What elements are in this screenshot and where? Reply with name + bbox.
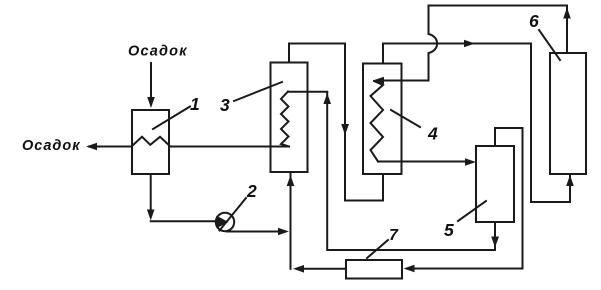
arrowhead: left into cooler 7 [404, 265, 415, 273]
svg-text:2: 2 [246, 181, 257, 201]
svg-text:4: 4 [427, 124, 438, 144]
pump P2 circle [216, 213, 234, 231]
leader line for label 3 [234, 82, 282, 101]
leader line for label 2 [220, 198, 247, 231]
vessel 4 [363, 64, 402, 175]
cooler 7 [346, 260, 402, 279]
arrowhead: up at corner toward vessel 3 coil [323, 93, 331, 104]
wire: vessel 4 top over to vessel 6 bottom [383, 44, 570, 203]
wire: feed line into vessel 1 [150, 63, 152, 100]
arrowhead: right into vessel 5 [465, 158, 476, 166]
arrowhead: pump outlet joining riser [278, 228, 289, 236]
wire: vessel 1 to vessel 3 heat-exchange line [169, 146, 289, 148]
arrowhead: into vessel 1 top [147, 97, 155, 108]
wire: riser from cooler 7 return up into vessel 3 bottom [290, 174, 292, 269]
arrowhead: up into vessel 6 bottom [566, 175, 574, 186]
vessel 3 [271, 63, 308, 173]
svg-text:3: 3 [220, 95, 230, 115]
arrowhead: down between vessels 3 and 4 [341, 124, 349, 135]
vessel 5 [476, 146, 514, 222]
wire: vessel 3 top over and down to vessel 4 bottom [289, 44, 383, 201]
wire: vessel 1 bottom down to pump [150, 174, 152, 213]
arrowhead: up into vessel 3 [287, 175, 295, 186]
leader line for label 4 [391, 110, 420, 127]
arrowhead: product out left [86, 143, 97, 151]
vessel 1 (heat exchanger) [132, 110, 169, 174]
svg-text:Осадок: Осадок [22, 138, 81, 154]
svg-text:5: 5 [444, 220, 454, 240]
wire: into vessel 3 coil top [288, 91, 327, 93]
arrowhead: left into vessel 4 coil [373, 77, 384, 85]
leader line for label 7 [367, 240, 388, 258]
svg-text:Осадок: Осадок [128, 44, 188, 60]
zigzag heating element in vessel 1 [132, 137, 169, 146]
wire: product outlet to the left [89, 146, 132, 148]
svg-text:1: 1 [190, 94, 200, 114]
coil zigzag in vessel 4 [371, 81, 384, 162]
vessel 6 (column) [550, 53, 586, 174]
leader line for label 6 [539, 30, 560, 60]
leader line for label 5 [458, 201, 486, 221]
coil zigzag in vessel 3 [281, 92, 289, 147]
svg-text:6: 6 [529, 11, 539, 31]
wire: pump outlet to riser [227, 231, 281, 233]
arrowhead: down at corner to pump [147, 210, 155, 221]
leader line for label 1 [153, 107, 190, 130]
pump inlet filled triangle [216, 216, 228, 229]
wire: vessel 5 top over and down to cooler 7 inlet [407, 128, 523, 269]
wire: vessel 5 bottom down, left and up to vessel 3 coil [327, 92, 495, 250]
arrowhead: up at top of vessel 6 riser [563, 8, 571, 19]
arrowhead: left at riser corner [293, 265, 304, 273]
wire: vessel 6 top vapour line to vessel 4 coil (with hop over crossing) [376, 6, 567, 81]
svg-text:7: 7 [389, 227, 399, 244]
wire: vessel 4 coil outlet to vessel 5 [378, 161, 468, 163]
arrowhead: down from vessel 5 bottom [491, 237, 499, 248]
wire: cooler 7 outlet left to riser [297, 268, 346, 270]
wire: horizontal into pump [151, 220, 216, 222]
arrowhead: rightward on line 4 to 6 [464, 40, 475, 48]
